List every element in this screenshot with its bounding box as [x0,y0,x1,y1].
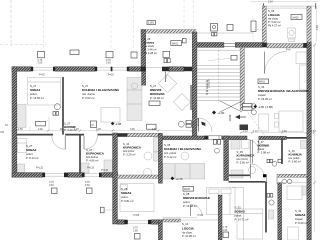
wide level box (70,50) [70,50,79,55]
door swing arrow [201,122,204,126]
svg-text:tze.pokot: tze.pokot [289,156,300,160]
top wall dark pier right [162,67,169,72]
dim box vertical 1.584 [251,21,256,32]
svg-text:P=133: P=133 [87,167,95,170]
step wall down (x113) [113,133,118,224]
dim row right wing (y131) [243,130,315,133]
dim boxes 107/107 [243,104,253,107]
soba2 wardrobe line [232,186,244,188]
grid line vertical x43 [43,0,45,52]
door arc soba2 [52,136,65,149]
east unit top wall y136 [162,136,204,140]
wall y181.8 thin lower [229,181,266,183]
svg-text:P: 14.71 m²: P: 14.71 m² [235,218,249,222]
wall x266 soba2 right [265,182,267,233]
svg-text:LOGGIA: LOGGIA [268,13,281,17]
svg-text:KUPAONICA: KUPAONICA [86,152,105,156]
window W2 in top wall [95,67,97,72]
wall stub below top wall at x141 [142,72,146,86]
elevation +1.80 [212,111,216,115]
room DNEVNI west texts [258,79,269,84]
east kitchen counter [163,164,205,180]
ostava top wall [141,30,196,34]
B marker box (166,54) [163,51,170,57]
loggia TR right wall [307,6,311,43]
entry door threshold [224,44,235,47]
door arc top right unit [265,52,287,74]
SOBA2 left furniture [17,139,27,153]
window B2 [82,173,85,178]
section arrow at landing [235,115,240,119]
svg-text:BORAVAK: BORAVAK [150,92,166,96]
right edge dim line [314,45,316,232]
ostava label box 5.081 [147,21,156,25]
top wall dark pier far right [184,67,192,72]
grid line vertical x133 [133,0,135,52]
grid line vertical x113 [110,0,112,52]
svg-text:-2.88: -2.88 [115,122,122,126]
hall cabinet small [269,210,274,219]
grid line vertical x253 [252,18,254,43]
svg-text:1.80: 1.80 [152,128,157,131]
stair numbering column [206,80,209,96]
svg-text:P=25: P=25 [39,74,45,77]
wall between bathR and soba (y176) [117,175,158,178]
svg-text:P: 3.44 m²: P: 3.44 m² [144,48,157,52]
interior wall horizontal y134.6 mid [65,134,84,136]
svg-text:0.60: 0.60 [223,229,228,232]
diagonal dashed line [246,110,268,140]
svg-text:na ulozu: na ulozu [182,231,193,235]
svg-text:0.60: 0.60 [49,184,54,187]
svg-text:KUHINJA I BLAGOVAONA: KUHINJA I BLAGOVAONA [164,147,202,151]
svg-text:P: 8.14 m²: P: 8.14 m² [26,156,39,160]
kitchen counter left unit [127,78,142,121]
svg-text:2.35: 2.35 [96,128,101,131]
svg-text:+1.70: +1.70 [176,177,183,181]
svg-text:P: 3.29 m²: P: 3.29 m² [123,153,136,157]
wall y175.3 thin left part [229,174,250,176]
hall top wall seg3 light [267,44,303,48]
svg-text:P: 13.48 m²: P: 13.48 m² [183,204,197,208]
wall x282 thin [281,138,283,164]
svg-text:P: 3.02 m²: P: 3.02 m² [268,20,281,24]
bottom wall lower seg2 [151,220,158,224]
svg-text:P=0: P=0 [286,49,291,52]
svg-text:istz.prizor: istz.prizor [123,149,135,153]
bathroom right fixtures [144,152,152,160]
marker box below B1 [52,188,58,194]
extension line stubs [29,126,31,131]
svg-text:5.081: 5.081 [148,22,155,25]
grid marker box A (41,55) [38,52,45,58]
svg-text:17x17,6: 17x17,6 [208,79,211,88]
SOBA3 furniture [287,186,302,200]
TC small box right of M402 [182,39,186,43]
marker box below B3 [135,234,141,240]
M marker box [91,121,97,128]
top dim marks above loggia TR [250,0,318,2]
right edge ticks [313,131,316,134]
svg-text:na ulozu: na ulozu [268,17,279,21]
svg-text:P: 5.60 m²: P: 5.60 m² [237,161,250,165]
svg-text:Pk 4.28 m²: Pk 4.28 m² [144,51,157,55]
circled number east entry [178,121,184,127]
svg-text:M: M [92,124,94,127]
left dnevni sofa diagonal [158,74,176,92]
door arc dnevni east to loggia [191,205,203,217]
hall top wall dark pier [262,43,267,48]
left wing dim chain line [13,130,192,132]
svg-text:P: 5.60 m²: P: 5.60 m² [289,160,302,164]
wall x278 lower [278,183,282,240]
circled number hall [269,200,274,205]
svg-text:3.90: 3.90 [130,128,135,131]
svg-text:2.64: 2.64 [268,1,273,4]
loggia left wall [158,220,162,240]
grid line vertical x184 [183,0,185,42]
window B1 [43,173,46,178]
east bed pillows [209,189,219,194]
svg-text:pokot: pokot [258,147,265,151]
grid line dashed horizontal top-left [0,44,46,46]
svg-text:SOBA1: SOBA1 [30,88,41,92]
bathroom south fixtures [231,140,240,150]
bottom wall seg2 [68,173,82,178]
circled number bath hall [272,161,277,166]
circled numbers [251,104,256,109]
furniture: SOBA1 bed [28,78,61,106]
bathroom south right wall (double line) [249,140,251,164]
svg-text:zapad: zapad [258,93,266,97]
top wall seg4 [169,67,184,72]
svg-text:P: 3.98 m²: P: 3.98 m² [258,151,271,155]
door threshold ostava [146,67,162,69]
svg-text:HODNIK: HODNIK [258,144,271,148]
svg-text:KUPAONICA: KUPAONICA [123,146,142,150]
window W1 in top wall [31,67,33,72]
svg-text:2.56: 2.56 [316,25,319,30]
svg-text:+1.80: +1.80 [218,111,225,115]
svg-text:SOBA2: SOBA2 [235,210,246,214]
bathroom right top wall [117,133,127,137]
svg-text:S_14: S_14 [182,222,189,226]
svg-text:pokot: pokot [30,92,37,96]
svg-text:7.10: 7.10 [253,130,258,133]
svg-text:na ulozu: na ulozu [144,44,155,48]
leader line [184,119,197,123]
svg-text:Pk 4.27 m²: Pk 4.27 m² [268,24,281,28]
svg-text:pokot: pokot [26,152,33,156]
west dining table [279,111,303,132]
stair centerline [218,50,220,103]
small box right [278,159,281,162]
door arc left dnevni (top) [166,67,182,83]
landing pier [240,125,249,131]
east unit wall y136 right of door [222,136,247,140]
boiler fixture [288,28,296,38]
right exterior wall [307,43,311,240]
elevation -2.80 [254,105,258,109]
label box under dnevni text [149,101,160,105]
stair label box with leader [208,58,231,61]
marker box below B2 [87,188,93,194]
top wall dark pier at ostava [141,67,146,72]
jamb lines below opening [266,177,268,184]
interior wall horizontal y134.6 left part [17,134,53,136]
svg-text:0.60: 0.60 [38,62,43,65]
dim leader left of TR loggia [250,29,262,31]
bottom wall left wing seg1 [12,173,43,178]
svg-text:KUHINJA I BLAGOVAONA: KUHINJA I BLAGOVAONA [82,88,120,92]
grid line vertical x193 above wall [193,0,195,32]
svg-text:P: 9.02 m²: P: 9.02 m² [82,96,95,100]
svg-text:2.90: 2.90 [38,128,43,131]
svg-text:KUHINJA: KUHINJA [289,153,303,157]
svg-text:istz. pokot: istz. pokot [164,151,176,155]
west dnevni sofa [296,52,307,64]
kitchen sink circle [132,83,138,89]
door arc bathroom left [84,136,97,149]
label box left of chain [147,124,157,129]
loggia TR left wall [262,6,266,43]
entry door arc [199,118,213,132]
stair right wall x240 [240,47,244,110]
dim label 1.59 left of step wall [100,207,104,213]
hall top wall dark pier right [303,43,311,48]
bath door leaf [249,164,251,178]
svg-text:pokot: pokot [183,200,190,204]
wall y175 hatch right part [277,174,307,177]
door arc south unit 1 [247,140,258,152]
left bathroom fixtures [81,163,89,173]
wall x218-222 loggia right [218,195,222,240]
SOBA3 bed bottom [288,227,299,240]
top wall of left wing: seg1 [12,67,31,72]
svg-text:DNEVNI BORAVAK I BLAGOVAONA: DNEVNI BORAVAK I BLAGOVAONA [258,89,310,93]
chain ticks right [240,131,308,133]
axis box top mid [211,24,218,32]
east dnevni bed [207,188,236,215]
svg-text:istz.dučno: istz.dučno [86,155,99,159]
svg-text:P: 8.20 m²: P: 8.20 m² [295,221,308,225]
wall y136 seg continuing [259,136,287,139]
elevation arrow east entry [201,123,205,127]
svg-text:P=03: P=03 [198,214,204,217]
svg-text:P: 4.66 m²: P: 4.66 m² [86,159,99,163]
svg-text:SOBA2: SOBA2 [26,148,37,152]
circled number kitchen east [215,148,220,153]
thin wall y137 to right wall [286,137,307,139]
svg-text:±0.00: ±0.00 [228,114,232,121]
hall top wall seg2 [235,43,262,48]
BB boxes kitchen east [213,140,216,145]
interior wall SOBA1/KUHINJA (x63) [62,77,64,135]
BB small boxes [164,59,167,63]
door arc bath [250,164,264,178]
dim boxes 107/207 [186,121,191,124]
svg-text:0.60: 0.60 [106,62,111,65]
svg-text:3.66: 3.66 [282,130,287,133]
label box mid soba1 [36,121,46,126]
left exterior wall [12,67,17,178]
svg-text:LOGGIA: LOGGIA [182,227,195,231]
grid marker box C (133,55) [131,52,137,58]
SOBA1 wardrobe [17,105,26,128]
S28 room bed rect [120,184,154,212]
central vertical wall [192,32,197,139]
stair break cross [220,101,242,112]
svg-text:P: 22.35 m²: P: 22.35 m² [258,97,272,101]
svg-text:2.86: 2.86 [133,230,138,233]
kitchen table left [101,108,120,123]
svg-text:M400: M400 [293,17,300,20]
svg-text:P: 10.05 m²: P: 10.05 m² [182,234,196,238]
svg-text:Ostava: Ostava [144,41,154,45]
west armchair [259,114,269,131]
svg-text:istz. dučno: istz. dučno [82,92,95,96]
top line end ticks [263,3,265,10]
svg-text:M401: M401 [259,81,266,84]
svg-text:SOBA2: SOBA2 [121,191,132,195]
entry door threshold bottom [205,136,222,139]
M402 marker box [171,41,182,46]
wall y175 dark pier [263,174,267,177]
M400 marker box [291,15,302,20]
grid line A vertical left [10,0,12,46]
svg-text:istz.prizor: istz.prizor [237,157,249,161]
left dnevni table diagonal [174,94,191,111]
east kitchen table [181,152,189,160]
ostava left wall [141,30,146,72]
room DNEVNI east texts [183,187,194,192]
wall y217 east part thin [162,217,197,219]
svg-text:P=85: P=85 [134,214,140,217]
svg-text:0.60: 0.60 [85,184,90,187]
svg-text:P: 13.56 m²: P: 13.56 m² [30,96,44,100]
svg-text:2.10: 2.10 [243,130,248,133]
elevation -2.88 left [111,122,115,126]
soba east-right wardrobe [301,141,307,149]
BB boxes soba1 [53,112,56,116]
radiator strip on central wall [190,85,192,110]
dim row left wing (y130) [18,128,157,131]
loggia top wall [162,219,180,222]
svg-text:P=132: P=132 [36,167,44,170]
top wall seg2 [55,67,95,72]
wall x224 vertical [224,136,229,181]
svg-text:pokot: pokot [121,195,128,199]
svg-text:P: 9.81 m²: P: 9.81 m² [121,199,134,203]
svg-text:1.15: 1.15 [74,128,79,131]
right wing dim chain line [240,131,314,133]
svg-text:DNEVNI BORAVAK: DNEVNI BORAVAK [183,196,211,200]
bottom wall lower seg [117,220,124,224]
circled number soba1 [54,104,60,110]
svg-text:M406: M406 [184,188,191,191]
svg-text:P=133: P=133 [101,169,109,172]
svg-text:zapad: zapad [295,217,303,221]
svg-text:KUPAONICA: KUPAONICA [237,154,256,158]
svg-text:9x17/28: 9x17/28 [198,117,200,126]
svg-text:P=25: P=25 [108,74,114,77]
top wall seg3 [129,67,141,72]
svg-text:P: 9.12 m²: P: 9.12 m² [164,155,177,159]
hall top wall (y42.5) seg1 [197,43,224,48]
axis box right (229,28) [227,25,233,31]
svg-text:M402: M402 [172,42,179,45]
stair landing edge line [197,49,240,51]
grid marker box B (109,55) [106,52,113,58]
svg-text:pokot: pokot [235,214,242,218]
window B3 [124,220,127,224]
bottom wall seg3 [102,173,118,178]
SOBA2 south bed [237,209,263,239]
stairs treads [197,66,240,101]
left edge dim marks [1,124,9,134]
svg-text:-2.80 (-2.88): -2.80 (-2.88) [258,105,273,109]
small dim boxes above hall cabinet [267,194,270,198]
loggia TR top line [262,5,316,7]
svg-text:SOBA3: SOBA3 [295,213,306,217]
elevation +1.70 [171,177,175,181]
interior wall SOBA2/KUPAONICA (x80) [79,135,81,173]
chain ticks left [16,129,194,131]
BB boxes hall [267,159,269,162]
svg-text:P: 14.82 m²: P: 14.82 m² [150,96,164,100]
eave line above hall [197,32,253,34]
svg-text:2.55: 2.55 [18,128,23,131]
circled numbers below south wall [282,179,287,184]
wall x158-162 (loggia/east boundary upper) [158,133,162,183]
